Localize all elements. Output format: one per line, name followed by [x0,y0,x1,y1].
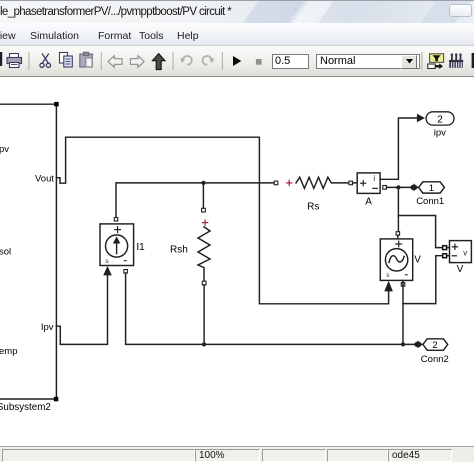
svg-text:Rs: Rs [307,202,319,213]
svg-text:1: 1 [429,183,434,194]
svg-text:Conn2: Conn2 [421,354,449,365]
junction node at Rsh top [201,181,205,185]
V source top stub [397,235,399,239]
Rsh bottom port [202,281,206,285]
status bar [0,446,474,462]
svg-text:V: V [457,264,464,275]
wire A left stub [353,182,358,184]
svg-text:v: v [463,248,467,257]
svg-text:ipv: ipv [434,127,446,138]
selection handle bottom-right [54,397,59,402]
wire plus node: I1 top to Rs [116,183,274,219]
svg-text:Vout: Vout [35,173,54,184]
I1 bottom-right port [124,270,128,274]
I1 top port [114,218,118,222]
selection handle top-right [54,102,59,107]
svg-text:i: i [373,174,375,183]
V display plus stub [447,247,450,249]
svg-text:2: 2 [432,340,437,351]
arrowhead at V source s-input [384,281,393,292]
wire Ipv to I1 s-input [56,275,107,344]
V display minus port [443,254,447,258]
svg-text:A: A [365,197,372,208]
menu bar [0,23,474,46]
connection port Conn2 [423,339,448,351]
svg-text:Subsystem2: Subsystem2 [0,402,51,413]
svg-text:V: V [414,254,421,265]
wire V source minus to Conn2 rail [402,280,404,344]
toolbar [0,46,474,77]
voltage display block V [450,241,472,263]
svg-text:Rsh: Rsh [170,245,188,256]
subsystem Subsystem2 [0,104,56,399]
junction on minus rail below Rsh [202,342,206,346]
wire Vout to V source s-input [56,137,388,304]
svg-text:Ipv: Ipv [41,322,54,333]
V display minus stub [447,255,450,257]
resistor Rsh red plus [203,220,208,225]
connection port Conn1 [419,182,445,193]
A left port [349,181,353,185]
svg-text:emp: emp [0,346,17,357]
Conn1 connection dot-arrow [410,185,415,190]
A minus port [383,186,387,190]
window title bar [0,0,474,23]
wire A i-output to ipv [380,118,417,179]
wire Conn1 node to V source plus [397,190,399,232]
current measurement A [357,173,380,194]
Rsh top port [202,208,206,212]
controlled current source I1 [100,224,134,266]
wire minus rail [126,273,415,344]
svg-text:pv: pv [0,144,9,155]
svg-text:2: 2 [437,114,443,125]
wire junction to Rsh top port [202,183,204,208]
wire A minus to Conn1 [387,186,412,188]
open wire end port at Rs left [274,181,278,185]
controlled voltage source V [380,239,412,281]
V display plus port [443,246,447,250]
arrowhead at ipv [417,114,425,123]
outport 2 ipv [426,112,454,125]
arrowhead at I1 s-input [103,266,112,275]
junction at Conn2 branch [401,342,405,346]
wire voltage display minus loop [403,256,443,304]
resistor Rsh zigzag [198,227,210,281]
wire Rsh bottom to minus rail [203,285,205,345]
V source top port [396,232,400,236]
svg-text:Conn1: Conn1 [416,196,444,207]
V source bottom-right port [401,283,405,287]
svg-text:I1: I1 [136,242,145,253]
resistor Rs red plus [287,180,292,185]
resistor Rs zigzag and lead to A [296,177,349,188]
junction at Conn1 branch [396,185,400,189]
wire node to voltage display plus [398,216,442,248]
svg-text:sol: sol [0,246,11,257]
Conn2 connection dot-arrow [414,342,419,347]
